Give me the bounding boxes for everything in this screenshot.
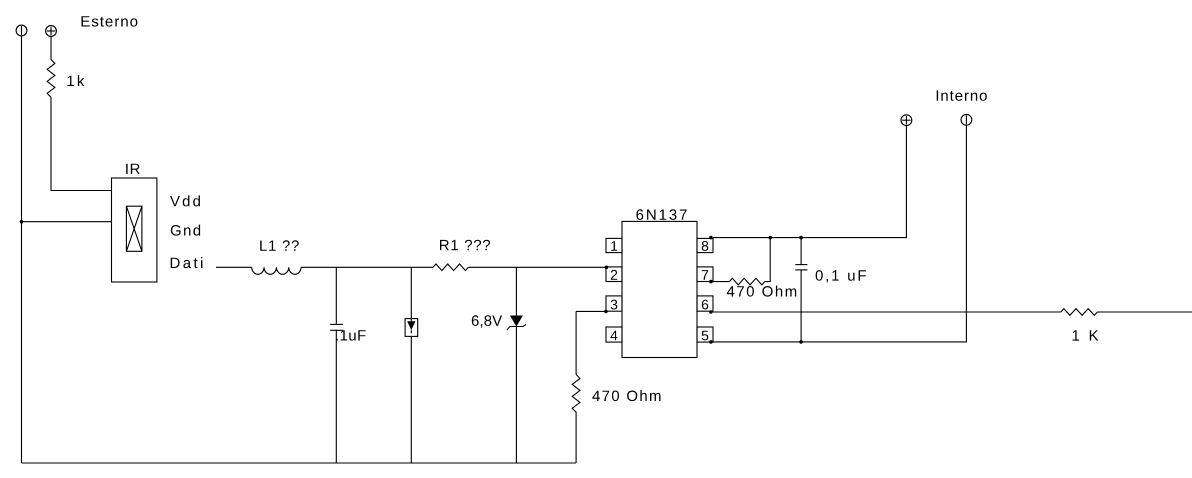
terminal T3 (internal plus) [901,115,912,126]
resistor R3 470 Ohm [572,375,580,413]
pin 5 box [697,327,713,342]
wire R2 to pin8 row [765,238,770,282]
label 1k [67,75,84,86]
wire C2 branch bottom [800,270,802,342]
wire diode box branch top [410,267,412,318]
wire R3 branch bottom [575,412,577,463]
label Vdd [170,195,200,206]
wire pin8 row [713,126,907,238]
node pin6 junction [709,310,713,314]
label Interno [937,90,987,100]
node junction left rail [20,220,24,224]
diode box D1 [405,319,418,337]
inductor L1 [252,267,301,274]
pin 3 box [606,296,622,311]
wire R3 branch top [575,311,577,374]
node R2 top junction [768,236,772,240]
capacitor C1 .1uF [330,324,343,330]
label R1 ??? [440,240,490,251]
node pin3 junction [604,310,608,314]
terminal T1 (external minus) [16,25,27,36]
wire left rail [21,36,23,463]
pin number 8 [702,241,709,251]
IR module box [112,178,157,282]
wire capacitor C1 branch bottom [335,330,337,463]
wire diode box branch bottom [410,336,412,463]
pin number 1 [611,241,617,251]
op-amp U1 6N137 body [622,221,697,357]
wire pin3 to R3 [576,310,606,312]
label 0,1 uF [816,270,866,282]
wire pin6 row right [1097,311,1192,313]
wire L1 to R1 [301,266,433,268]
pin 4 box [606,327,622,342]
pin number 2 [611,270,617,280]
label Dati [171,257,203,268]
wire Dati to L1 [216,266,252,268]
wire 1k to IR Vdd [51,97,112,190]
label L1 ?? [260,240,299,251]
IR sensor element [126,206,141,251]
wire T2 to R 1k [50,37,52,60]
node pin8 junction [709,236,713,240]
pin 7 box [697,267,713,282]
capacitor C2 0,1uF [795,265,807,270]
pin 6 box [697,296,713,311]
wire pin6 row left [713,311,1061,313]
wire pin7 to R2 [713,281,730,283]
label 6,8V [472,315,502,327]
wire zener branch bottom [515,327,517,464]
pin number 5 [702,331,709,341]
label IR [126,164,140,174]
pin number 7 [702,270,708,280]
label 470 Ohm (R2) [727,286,796,297]
node C2 bottom junction [799,340,803,344]
label Gnd [171,225,200,236]
wire left rail to IR Gnd [22,221,112,223]
wire capacitor C1 branch top [335,267,337,324]
pin 8 box [697,238,713,252]
node C2 top junction [799,236,803,240]
pin 2 box [606,267,622,282]
resistor 1k [47,60,55,98]
label Esterno [82,16,138,26]
wire bottom rail [22,462,577,464]
node pin5 junction [709,340,713,344]
resistor R1 [433,264,468,271]
pin number 4 [610,331,617,341]
label .1uF [336,330,365,340]
wire pin5 row [713,125,967,342]
resistor R2 470 Ohm [729,278,764,285]
wire C2 branch top [800,238,802,265]
wire R1 to pin2 [469,266,607,268]
terminal T2 (external plus) [46,26,57,37]
pin number 3 [611,300,618,310]
label 470 Ohm (R3) [592,390,660,401]
label 1 K [1073,330,1099,340]
label 6N137 [636,209,686,220]
zener diode D2 6,8V [507,316,526,331]
node pin2 junction [605,266,609,270]
resistor R4 1K [1061,309,1097,316]
wire zener branch top [515,267,517,315]
node pin7 junction [709,280,713,284]
pin 1 box [606,238,622,252]
terminal T4 (internal minus) [961,114,972,125]
pin number 6 [702,300,709,310]
